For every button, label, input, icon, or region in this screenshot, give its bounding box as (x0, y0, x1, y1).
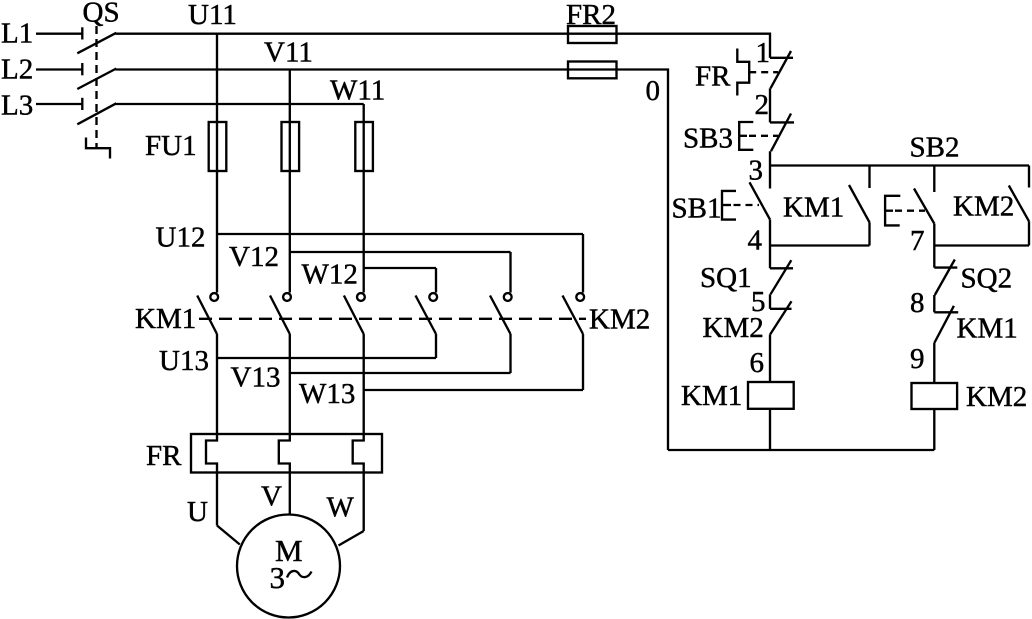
svg-text:KM2: KM2 (703, 312, 764, 344)
svg-text:KM1: KM1 (681, 380, 742, 412)
node 7 rail (934, 244, 1029, 246)
FR NC contact blade (771, 51, 792, 88)
contactor KM2 main contact 3 blade (563, 296, 584, 335)
node U13 wire (217, 357, 436, 359)
SB1 actuator dashed link (734, 204, 760, 206)
QS blade L3 (77, 103, 116, 124)
contactor KM2 main contact 2 blade (490, 296, 511, 335)
svg-text:KM1: KM1 (135, 303, 196, 335)
svg-text:1: 1 (756, 37, 771, 69)
motor M circle (237, 515, 340, 618)
node W12 wire to KM2 contact 1 (364, 267, 436, 269)
wire W phase vertical upper (363, 104, 365, 293)
svg-text:L3: L3 (1, 89, 33, 121)
contactor KM2 main contact 1 bottom wire (435, 334, 437, 358)
svg-text:QS: QS (83, 0, 120, 28)
wire U phase vertical lower with FR heater detour (206, 334, 217, 526)
svg-text:FR: FR (146, 440, 182, 472)
svg-text:KM1: KM1 (783, 192, 844, 224)
svg-text:FU1: FU1 (145, 130, 197, 162)
SB1 NO contact top wire (769, 166, 771, 189)
contactor KM1 main contact U terminal circle (210, 293, 218, 301)
SQ2 NC contact blade (935, 260, 955, 296)
svg-text:2: 2 (755, 89, 770, 121)
QS blade L1 (77, 33, 116, 54)
svg-text:W11: W11 (330, 75, 385, 107)
svg-text:0: 0 (646, 75, 661, 107)
svg-text:W: W (327, 492, 355, 524)
contactor KM2 main contact 3 terminal circle (576, 293, 584, 301)
FR actuator dashed link (749, 71, 778, 73)
coil KM1 bottom wire (769, 409, 771, 450)
svg-text:SB1: SB1 (672, 193, 722, 225)
wire SB3 to node 3 (769, 151, 771, 165)
SB2 actuator dashed link (895, 210, 925, 212)
contactor KM2 main contact 2 bottom wire (509, 334, 511, 373)
KM1 NC contact blade (934, 306, 954, 343)
wire L1 left segment (36, 33, 82, 35)
wire W phase vertical lower with FR heater detour (353, 334, 364, 531)
wire L3 segment to W branch corner (116, 103, 364, 105)
contactor KM2 main contact 1 blade (416, 296, 437, 335)
QS fixed contact tick L3 (81, 98, 83, 110)
node V12 wire to KM2 contact 2 (290, 251, 511, 253)
SB3 NC contact bar (770, 121, 794, 123)
svg-text:U11: U11 (188, 0, 237, 31)
SQ1 NC contact blade (771, 260, 792, 294)
QS handle (86, 138, 110, 159)
contactor KM2 main contact 2 terminal circle (504, 293, 512, 301)
svg-text:U12: U12 (156, 221, 206, 253)
svg-text:KM2: KM2 (589, 304, 650, 336)
contactor KM1 main contact V terminal circle (283, 293, 291, 301)
svg-text:U: U (187, 496, 208, 528)
coil KM1 rect (748, 382, 794, 409)
SQ1 top wire (769, 246, 771, 269)
motor tilde (287, 571, 312, 578)
wire V phase vertical lower with FR heater detour (279, 334, 290, 515)
svg-text:W12: W12 (302, 259, 358, 291)
KM2 aux contact blade (1009, 186, 1029, 222)
node 3 rail (770, 164, 1029, 166)
contactor KM1 main contact W blade (344, 296, 364, 335)
contactor KM2 main contact 1 terminal circle (429, 293, 437, 301)
svg-text:L1: L1 (1, 17, 33, 49)
svg-text:SB2: SB2 (910, 132, 960, 164)
wire KM1 NC to coil KM2 (933, 343, 935, 383)
wire V phase vertical upper (289, 70, 291, 293)
SB1 bottom wire to node 4 (769, 220, 771, 246)
KM1 aux contact blade (849, 185, 870, 222)
svg-text:KM2: KM2 (966, 381, 1027, 413)
KM2 NC contact bar (770, 308, 792, 310)
node U12 wire to KM2 contact 3 (217, 233, 583, 235)
contactor KM2 main contact 3 top wire (582, 234, 584, 293)
svg-text:7: 7 (910, 225, 925, 257)
KM1-KM2 linkage dashed line (199, 318, 586, 320)
wire SQ1 to KM2 NC (769, 294, 771, 309)
KM1 aux bottom wire (868, 222, 870, 245)
SQ2 NC contact bar (934, 266, 957, 268)
SB2 actuator middle arm (885, 210, 893, 212)
svg-text:3: 3 (749, 155, 764, 187)
svg-text:FR: FR (695, 61, 731, 93)
svg-text:V12: V12 (229, 241, 279, 273)
svg-text:W13: W13 (299, 378, 355, 410)
FR actuator bump (737, 49, 749, 96)
wire U diagonal into motor (217, 526, 240, 545)
svg-text:KM2: KM2 (953, 191, 1014, 223)
svg-text:9: 9 (910, 343, 925, 375)
svg-text:SQ2: SQ2 (961, 263, 1013, 295)
SB3 NC contact blade (771, 114, 791, 152)
wire L2 left segment (36, 68, 82, 70)
node W13 wire (364, 389, 583, 391)
SB2 NO contact top wire (933, 166, 935, 193)
QS blade L2 (77, 69, 116, 90)
fuse FR2 element on L1 (568, 26, 617, 43)
fuse FU1 phase W (355, 122, 373, 171)
bottom rail (668, 449, 934, 451)
wire KM2 NC to coil KM1 (769, 335, 771, 382)
fuse FU1 phase V (282, 122, 300, 171)
node 4 rail (770, 244, 870, 246)
svg-text:V: V (261, 481, 282, 513)
svg-text:V13: V13 (231, 361, 281, 393)
SQ2 top wire (933, 246, 935, 268)
SB2 bottom wire to node 7 (933, 224, 935, 246)
svg-text:SQ1: SQ1 (700, 262, 752, 294)
SB3 actuator dashed link (749, 135, 778, 137)
QS linkage dashed line (95, 26, 97, 148)
fuse FU1 phase U (209, 122, 227, 171)
contactor KM2 main contact 3 bottom wire (582, 334, 584, 390)
SB2 NO contact blade (914, 189, 934, 224)
contactor KM1 main contact W terminal circle (357, 293, 365, 301)
SB3 actuator middle arm (739, 135, 747, 137)
SB1 NO contact blade (750, 182, 771, 219)
KM1 aux contact top wire (868, 166, 870, 189)
svg-text:4: 4 (748, 225, 763, 257)
svg-text:V11: V11 (264, 37, 313, 69)
SQ1 NC contact bar (770, 267, 793, 269)
contactor KM1 main contact V blade (270, 296, 290, 335)
QS fixed contact tick L2 (81, 63, 83, 75)
contactor KM2 main contact 1 top wire (435, 268, 437, 293)
thermal relay FR box (191, 434, 382, 473)
wire U phase vertical upper (216, 34, 218, 293)
svg-text:KM1: KM1 (957, 313, 1018, 345)
svg-text:3: 3 (270, 560, 286, 595)
wire L3 left segment (36, 103, 82, 105)
KM1 NC contact bar (934, 311, 958, 313)
wire L2 to 0 rail with corner down (116, 70, 669, 451)
contactor KM1 main contact U blade (197, 296, 217, 335)
fuse FR2 element on L2 (568, 62, 617, 79)
SB1 button actuator (722, 191, 736, 220)
wire W diagonal into motor (339, 531, 364, 546)
contactor KM2 main contact 2 top wire (509, 252, 511, 293)
svg-text:8: 8 (910, 287, 925, 319)
wire SQ2 to KM1 NC (933, 295, 935, 312)
coil KM2 rect (912, 383, 958, 409)
SB1 actuator middle arm (722, 204, 731, 206)
FR NC contact bar (770, 57, 793, 59)
wire between FR contact and SB3 (769, 88, 771, 122)
svg-text:L2: L2 (1, 53, 33, 85)
KM2 NC contact blade (770, 301, 792, 334)
svg-text:U13: U13 (159, 345, 209, 377)
svg-text:6: 6 (750, 347, 765, 379)
svg-text:SB3: SB3 (683, 123, 733, 155)
SB3 button actuator (739, 122, 753, 150)
node V13 wire (290, 372, 511, 374)
KM2 aux contact top wire (1028, 166, 1030, 188)
KM2 aux bottom wire (1028, 221, 1030, 245)
wire L1 to control circuit with corner down (116, 34, 771, 58)
coil KM2 bottom wire (933, 409, 935, 450)
QS fixed contact tick L1 (81, 27, 83, 39)
SB2 button actuator (885, 196, 900, 226)
